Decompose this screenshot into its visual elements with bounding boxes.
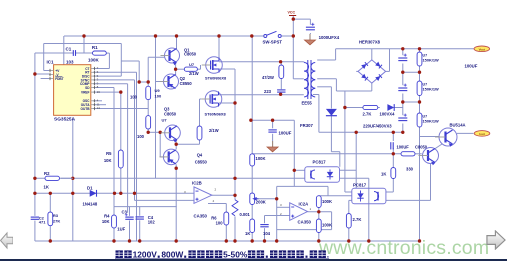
wire top VCC bus xyxy=(64,35,266,37)
node wiper-in xyxy=(275,197,278,200)
node res2 xyxy=(418,100,421,103)
resistor 100K out1 xyxy=(316,196,332,208)
node r4-top xyxy=(113,192,116,195)
resistor 2.7K sense xyxy=(363,105,378,116)
wire rail193 xyxy=(35,192,194,194)
ground main xyxy=(305,34,316,45)
wire primary center tap xyxy=(293,16,304,79)
wire sense branch xyxy=(345,91,403,192)
wire rail178 xyxy=(35,177,305,179)
terminal Vout xyxy=(474,46,490,52)
node sense-c xyxy=(401,131,404,134)
wire Q1 collector to bus xyxy=(176,36,178,49)
diode 100VX4 xyxy=(380,104,396,116)
wire sense rail xyxy=(319,131,403,133)
node zr-a xyxy=(138,80,141,83)
resistor 100K out2 xyxy=(316,219,332,233)
nav arrow left xyxy=(0,229,13,252)
node bus241-13 xyxy=(263,239,266,242)
resistor R4 10K xyxy=(102,214,117,229)
nav arrow right xyxy=(486,230,506,250)
node rail193-r3 xyxy=(49,192,52,195)
node d1-rail xyxy=(71,192,74,195)
node bus241-11 xyxy=(233,239,236,242)
wire pc2 led bottom xyxy=(349,200,352,241)
node bus241-16 xyxy=(367,239,370,242)
wire IC top-left loop xyxy=(44,36,122,76)
node rail178-l xyxy=(33,177,36,180)
wire vcc cap branch xyxy=(293,19,310,34)
capacitor C4 102 xyxy=(136,215,156,225)
wire R4C3C4 legs xyxy=(114,207,140,241)
wire cap stack xyxy=(402,49,404,133)
wire M2 gate res xyxy=(200,99,202,126)
node snub-top xyxy=(279,60,282,63)
node vcc-sw xyxy=(292,34,295,37)
capacitor 104 xyxy=(260,225,270,237)
optocoupler PC817 second xyxy=(352,182,386,204)
resistor 150K/1W b xyxy=(417,81,439,96)
capacitor stack2 xyxy=(398,84,407,91)
node r5-bot xyxy=(119,192,122,195)
node sense-a xyxy=(355,131,358,134)
capacitor stack1 xyxy=(398,54,407,61)
resistor R5 10K xyxy=(104,150,123,168)
wire pc1 left pins xyxy=(294,170,305,186)
capacitor 1000UFX4 xyxy=(306,23,340,40)
wire -V stub xyxy=(35,53,49,241)
capacitor 100UF right-low xyxy=(391,142,428,149)
node bus241-15 xyxy=(347,239,350,242)
bridge rectifier HER307X8 xyxy=(358,40,386,84)
wire IC right pin nets xyxy=(93,61,165,241)
resistor 150K/1W c xyxy=(417,113,439,127)
node cap2 xyxy=(401,100,404,103)
wire C8050r emitter xyxy=(386,164,431,200)
IC1 pin labels xyxy=(55,67,90,111)
wire pc1 right pins xyxy=(340,132,369,241)
mosfet M2 ST60N06X8 xyxy=(201,91,226,117)
wire bottom bus xyxy=(35,240,420,242)
node chainq3 xyxy=(147,131,150,134)
node bus241-10 xyxy=(225,239,228,242)
node fb-100uf xyxy=(392,152,395,155)
resistor R1 100K xyxy=(88,45,106,62)
IC1 pin numbers xyxy=(97,66,101,110)
wire fb divider xyxy=(251,166,253,241)
wire mid gnd branch xyxy=(251,120,294,170)
wire snubber xyxy=(280,62,282,95)
resistor 0.001 shunt xyxy=(232,200,250,218)
resistor R6 100 xyxy=(211,212,228,225)
node bus-c xyxy=(175,34,178,37)
node bus241-14 xyxy=(317,239,320,242)
node bus241-12 xyxy=(251,239,254,242)
wire shunt bottom xyxy=(234,216,236,241)
node rail193-l xyxy=(33,192,36,195)
node sense-b xyxy=(392,131,395,134)
transistor Q2 C8550 xyxy=(160,74,193,89)
capacitor 100UF mid xyxy=(268,130,291,136)
node rail120-b xyxy=(271,119,274,122)
wire IC gnd pin xyxy=(72,117,74,241)
node bus241-4 xyxy=(112,239,115,242)
node bus241-17 xyxy=(418,239,421,242)
watermark cntronics xyxy=(319,237,507,260)
wire ic2a minus xyxy=(265,216,290,242)
wire M2 drain xyxy=(219,94,304,96)
wire res stack to bus xyxy=(419,137,421,242)
node bus-b xyxy=(154,34,157,37)
wire R3 branch xyxy=(49,193,51,241)
IC1 pin stubs xyxy=(49,67,96,110)
wire C8050r collector xyxy=(435,144,443,149)
wire M1 source xyxy=(219,69,235,200)
footer rule xyxy=(0,259,507,261)
resistor 150K/1W a xyxy=(417,52,439,66)
wire pot wiper xyxy=(257,198,277,200)
node out2b xyxy=(233,194,236,197)
wire ic2b fb xyxy=(208,204,226,242)
capacitor 223 snubber xyxy=(264,89,286,94)
transistor C8050 right xyxy=(419,148,439,166)
resistor 1K fb xyxy=(245,219,255,236)
wire Q2 collector down xyxy=(156,36,165,82)
wire 100k2 bottom xyxy=(318,233,320,242)
wire M1 drain xyxy=(219,36,304,62)
capacitor stack3 xyxy=(398,114,407,121)
node bus241-5 xyxy=(128,239,131,242)
potentiometer 200K xyxy=(250,193,266,205)
node midtap27k xyxy=(343,106,346,109)
op-amp IC2A xyxy=(280,202,312,225)
switch SW-SPST xyxy=(263,31,283,44)
wire C1R1 rail xyxy=(35,52,93,54)
node bus-a xyxy=(82,34,85,37)
wire secondary tap2 xyxy=(317,79,372,91)
ground mid xyxy=(267,141,278,152)
node v134 xyxy=(133,192,136,195)
wire ic2b in2 xyxy=(135,199,195,201)
optocoupler PC817 first xyxy=(305,160,340,183)
node vcc-cap xyxy=(292,17,295,20)
node res1 xyxy=(418,71,421,74)
wire res stack xyxy=(420,49,440,137)
wire 100k to pc2 xyxy=(319,195,352,197)
wire mid 100k xyxy=(251,36,253,154)
node q34e xyxy=(175,143,178,146)
wire base chain xyxy=(121,57,165,115)
wire switch right xyxy=(281,35,293,37)
wire ic2b out xyxy=(212,194,235,196)
node hv-res xyxy=(418,47,421,50)
diode FR307 xyxy=(300,109,337,128)
wire ic2a out net xyxy=(308,208,332,220)
transformer EE55 xyxy=(302,60,316,106)
node vref xyxy=(119,90,122,93)
wire R1 leads xyxy=(93,53,109,68)
label 100UF right xyxy=(465,64,478,69)
wire bridge top stub xyxy=(371,49,373,60)
capacitor C1 xyxy=(66,46,76,56)
wire bridge right riser xyxy=(386,49,390,72)
transistor Q1 C8050 xyxy=(161,47,197,65)
node bus241-8 xyxy=(175,239,178,242)
wire FR307 out xyxy=(331,116,339,167)
node ic-minusv xyxy=(33,72,36,75)
node bus241-ic2a xyxy=(275,239,278,242)
terminal Iout xyxy=(474,131,490,137)
resistor U7 2/1W gate1 xyxy=(184,62,198,76)
wire fb rail xyxy=(252,153,422,155)
node bus241-2 xyxy=(49,239,52,242)
transistor Q4 C8550 xyxy=(159,149,207,165)
wire lower rail xyxy=(114,206,177,208)
resistor R3 27K xyxy=(48,212,60,226)
node pc1-l xyxy=(293,169,296,172)
wire ic2a box xyxy=(277,186,332,241)
node zr-b xyxy=(147,80,150,83)
node bus241-7 xyxy=(138,239,141,242)
transistor Q3 C8050 xyxy=(161,107,181,143)
wire Q1Q2 emitter node xyxy=(176,62,201,76)
node out-1 xyxy=(317,210,320,213)
transistor BU514A xyxy=(435,123,466,147)
node shunt178 xyxy=(233,177,236,180)
resistor R2 1K xyxy=(44,171,60,190)
wire BU514A out xyxy=(457,132,474,134)
wire bridge left drop xyxy=(356,70,358,72)
node rail120-a xyxy=(249,119,252,122)
power VCC xyxy=(288,11,297,16)
node msrc xyxy=(233,101,236,104)
mosfet M1 ST60N06X8 xyxy=(202,57,227,81)
node bus-d xyxy=(250,34,253,37)
op-amp-controller IC1 SG3525A body xyxy=(47,59,91,122)
node q3b xyxy=(159,131,162,134)
wire M2 source xyxy=(219,102,235,104)
wire Q4 collector down xyxy=(156,82,177,242)
node r2-right xyxy=(71,177,74,180)
node bus-e xyxy=(217,34,220,37)
node q12e xyxy=(174,68,177,71)
resistor 330 xyxy=(401,152,415,172)
node cap1 xyxy=(401,71,404,74)
wire secondary tap3 xyxy=(317,87,331,109)
resistor 47/2W snubber xyxy=(262,65,284,80)
wire HV bus xyxy=(336,48,474,50)
resistor 1K right xyxy=(381,168,396,179)
capacitor C3 1UF xyxy=(117,210,133,232)
wire Q3Q4 emitter node xyxy=(176,140,199,150)
node snub-bot xyxy=(279,93,282,96)
node q4e xyxy=(175,167,178,170)
wire secondary tap4 xyxy=(313,95,319,133)
wire 1k right xyxy=(386,154,393,192)
wire cap-res ties xyxy=(403,72,420,102)
diode D1 1N4148 xyxy=(61,178,98,206)
resistor 2.7K low xyxy=(346,214,361,229)
wire 100uf right branch xyxy=(392,132,394,154)
wire switch left xyxy=(255,35,264,37)
capacitor C2 471 xyxy=(31,215,47,224)
op-amp IC2B xyxy=(184,181,217,219)
node hv-cap xyxy=(401,47,404,50)
label 220UF/450VX3 xyxy=(363,123,392,128)
resistor base 100 upper xyxy=(130,86,162,99)
resistor base 100 lower xyxy=(137,116,167,139)
wire secondary top xyxy=(317,49,335,60)
resistor 2/1W gate2 xyxy=(197,126,219,140)
resistor 100K fb top xyxy=(250,154,266,166)
